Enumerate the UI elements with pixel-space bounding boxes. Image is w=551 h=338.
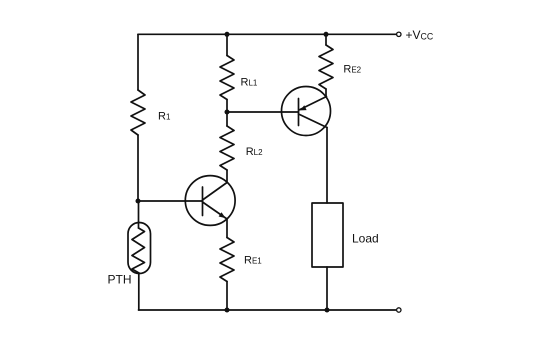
wire R1 to node A (137, 135, 139, 201)
thermistor PTH body (128, 223, 151, 274)
resistor RL2 (220, 126, 234, 170)
wire bottom rail (139, 309, 396, 311)
wire RE1 to bottom rail (226, 282, 228, 311)
transistor Q1 circle (185, 176, 235, 226)
transistor Q2 collector diagonal (299, 114, 328, 128)
thermistor PTH zigzag (132, 228, 145, 273)
terminal +Vcc circle (397, 32, 401, 36)
svg-text:RE1: RE1 (244, 255, 262, 267)
wire base Q1 (138, 200, 203, 202)
svg-text:Load: Load (352, 232, 379, 246)
wire RL2 to Q1 collector (226, 170, 228, 183)
wire Q2 collector to Load (326, 128, 328, 204)
load resistor box (312, 203, 343, 267)
node junction bottom RE1 (225, 308, 230, 313)
transistor Q1 collector diagonal (203, 183, 228, 201)
wire PTH to bottom rail (138, 273, 140, 310)
wire RE2 to Q2 emitter (325, 89, 327, 97)
wire RL1 top (226, 34, 228, 55)
resistor RE2 (319, 45, 333, 89)
wire top rail (138, 33, 396, 35)
wire Load to bottom rail (326, 267, 328, 310)
svg-text:PTH: PTH (108, 273, 132, 287)
svg-text:RE2: RE2 (343, 64, 361, 76)
resistor RE1 (220, 238, 234, 282)
wire RL1 to node B (226, 100, 228, 113)
wire Q1 emitter to RE1 (226, 219, 228, 238)
node junction top RL1 (225, 32, 230, 37)
transistor Q1 emitter diagonal (203, 202, 228, 219)
resistor R1 (131, 90, 145, 135)
transistor Q2 circle (282, 87, 331, 136)
svg-text:R1: R1 (158, 110, 171, 122)
thermistor PTH lead top (138, 201, 140, 228)
wire RE2 top (325, 34, 327, 45)
wire base Q2 (227, 111, 299, 113)
node junction bottom Load (325, 308, 330, 313)
resistor RL1 (220, 56, 234, 100)
node junction top RE2 (324, 32, 329, 37)
transistor Q2 emitter diagonal (299, 97, 327, 111)
transistor Q2 base bar (298, 99, 300, 126)
svg-text:RL1: RL1 (241, 76, 258, 88)
node A junction R1 PTH base (136, 199, 141, 204)
svg-text:RL2: RL2 (246, 146, 263, 158)
transistor Q2 emitter arrow (300, 105, 307, 110)
wire node B to RL2 (226, 112, 228, 126)
node B junction RL1 RL2 base (225, 110, 230, 115)
terminal bottom circle (397, 308, 401, 312)
transistor Q1 emitter arrow (219, 212, 226, 218)
transistor Q1 base bar (202, 187, 204, 216)
wire left branch top (137, 34, 139, 90)
